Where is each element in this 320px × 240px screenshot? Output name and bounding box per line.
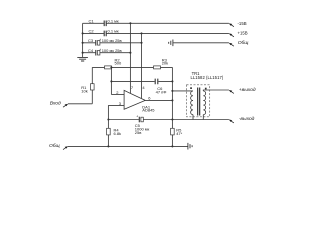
- svg-text:0.1 мк: 0.1 мк: [108, 18, 119, 23]
- wire secondary bottom lead: [202, 115, 204, 120]
- wire C4 row: [83, 52, 131, 54]
- ground sideways right: [188, 143, 192, 150]
- svg-text:500: 500: [115, 61, 122, 66]
- transformer TR1 dashed box: [187, 85, 210, 117]
- wire pin3 stub: [108, 104, 124, 106]
- svg-text:4: 4: [142, 85, 145, 90]
- node dots: [82, 22, 207, 147]
- wire R1 top lead: [91, 67, 93, 83]
- transformer secondary winding: [203, 91, 205, 115]
- wire primary bottom lead: [192, 115, 194, 120]
- svg-text:-15В: -15В: [238, 21, 247, 26]
- svg-text:25в: 25в: [135, 130, 142, 135]
- svg-text:Общ: Общ: [49, 143, 60, 149]
- wire primary top link: [172, 90, 193, 92]
- terminal +15V: [229, 33, 234, 37]
- transformer primary winding: [191, 91, 193, 115]
- terminal +vyhod: [229, 90, 234, 94]
- capacitor C4: [95, 50, 97, 56]
- svg-text:20k: 20k: [162, 61, 168, 66]
- capacitor C3: [95, 40, 97, 46]
- resistor R4: [107, 128, 111, 135]
- wire left bus: [82, 23, 84, 57]
- wire R1 bottom lead: [91, 90, 93, 104]
- svg-text:+: +: [99, 48, 101, 52]
- transformer phase dot secondary: [205, 88, 207, 90]
- terminal Obshch right: [229, 43, 234, 47]
- terminal arrows: [63, 23, 234, 149]
- svg-text:C4: C4: [88, 48, 94, 53]
- wire ground rail: [68, 145, 188, 147]
- wire feedback line A: [92, 66, 172, 68]
- svg-text:+: +: [99, 38, 101, 42]
- svg-text:C2: C2: [89, 28, 95, 33]
- terminal Vhod: [63, 104, 68, 108]
- wire main vertical node: [171, 67, 173, 119]
- svg-text:6.8k: 6.8k: [114, 131, 122, 136]
- wire input: [68, 103, 92, 105]
- svg-text:100 мк 25в: 100 мк 25в: [102, 38, 122, 43]
- terminal -15V: [229, 23, 234, 27]
- svg-text:10k: 10k: [81, 88, 87, 93]
- svg-text:AD845: AD845: [142, 108, 155, 113]
- capacitor C2: [104, 31, 106, 37]
- terminal Obshch bottom: [63, 146, 68, 150]
- svg-text:+15В: +15В: [238, 30, 248, 35]
- wire pin3 vertical: [107, 105, 109, 146]
- wire pin2 vertical: [110, 67, 112, 94]
- transformer phase dot primary: [190, 87, 192, 89]
- wire C3 row: [83, 42, 142, 44]
- wire Obshch top line: [173, 42, 229, 44]
- wire secondary top lead: [203, 90, 229, 91]
- resistor R5: [171, 120, 173, 147]
- svg-text:-выход: -выход: [239, 116, 255, 122]
- ground sideways left: [169, 40, 173, 47]
- wire power vertical V+: [129, 23, 131, 93]
- capacitor C1: [104, 21, 106, 27]
- svg-text:Общ: Общ: [238, 40, 249, 46]
- svg-text:6: 6: [148, 95, 151, 100]
- wire C6 line: [111, 80, 172, 82]
- svg-text:LL1582 (LL1517): LL1582 (LL1517): [191, 75, 224, 80]
- capacitor C5: [138, 117, 140, 123]
- ground: [77, 57, 88, 61]
- transformer core: [198, 88, 200, 116]
- op-amp DA1: [124, 90, 145, 109]
- svg-text:C3: C3: [88, 38, 94, 43]
- resistor R2: [105, 66, 112, 69]
- svg-text:Вход: Вход: [50, 101, 61, 107]
- svg-text:+выход: +выход: [239, 87, 256, 93]
- svg-text:C1: C1: [89, 18, 95, 23]
- wire C1 row: [83, 22, 229, 24]
- svg-text:+: +: [136, 114, 138, 118]
- terminal -vyhod: [229, 119, 234, 123]
- svg-text:47 пФ: 47 пФ: [156, 90, 167, 95]
- svg-text:47*: 47*: [176, 131, 182, 136]
- wire output: [145, 99, 172, 101]
- svg-text:100 мк 25в: 100 мк 25в: [102, 48, 122, 53]
- wire C2 row: [83, 32, 229, 34]
- wire line B: [108, 119, 228, 121]
- resistor R3: [154, 66, 161, 69]
- wire power vertical V-: [141, 33, 143, 98]
- svg-text:0.1 мк: 0.1 мк: [108, 28, 119, 33]
- svg-text:7: 7: [131, 85, 134, 90]
- capacitor C6: [155, 79, 158, 85]
- wire pin2 stub: [111, 94, 124, 96]
- resistor R1: [91, 84, 95, 90]
